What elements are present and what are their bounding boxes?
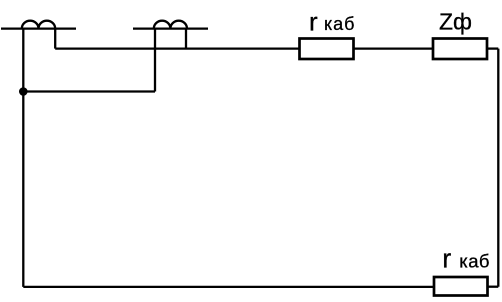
svg-text:каб: каб xyxy=(459,251,490,272)
wire: top-left supply line of transformer T1 xyxy=(1,27,76,29)
wire: bottom return wire xyxy=(23,286,434,288)
resistor R2 (r каб, bottom) xyxy=(434,277,488,296)
wire: right vertical bus xyxy=(497,49,499,287)
wire: Z1 right lead to right bus xyxy=(487,47,498,49)
resistor R1 (r каб, top) xyxy=(300,39,354,60)
svg-text:Zф: Zф xyxy=(439,9,472,35)
svg-text:r: r xyxy=(309,7,318,37)
wire: long horizontal to resistor R1 xyxy=(55,47,299,49)
transformer winding T2 (two arcs) xyxy=(154,21,187,29)
wire: corner into R2 xyxy=(488,286,499,288)
transformer winding T1 (two arcs) xyxy=(22,21,55,29)
impedance Z1 (Zф) xyxy=(433,39,487,60)
wire: T2 right lead down to long horizontal xyxy=(185,29,187,49)
wire: T1 right lead down xyxy=(54,29,56,49)
wire: left vertical bus from T1 down to bottom wire xyxy=(22,29,24,287)
wire: T2 left lead down xyxy=(154,29,156,92)
svg-text:r: r xyxy=(442,244,451,274)
node A (junction dot) xyxy=(19,87,28,96)
wire: top line of transformer T2 xyxy=(133,27,208,29)
svg-text:каб: каб xyxy=(324,14,355,34)
wire: horizontal from node A to T2 left lead xyxy=(23,90,155,92)
wire: between R1 and Z1 xyxy=(354,47,434,49)
